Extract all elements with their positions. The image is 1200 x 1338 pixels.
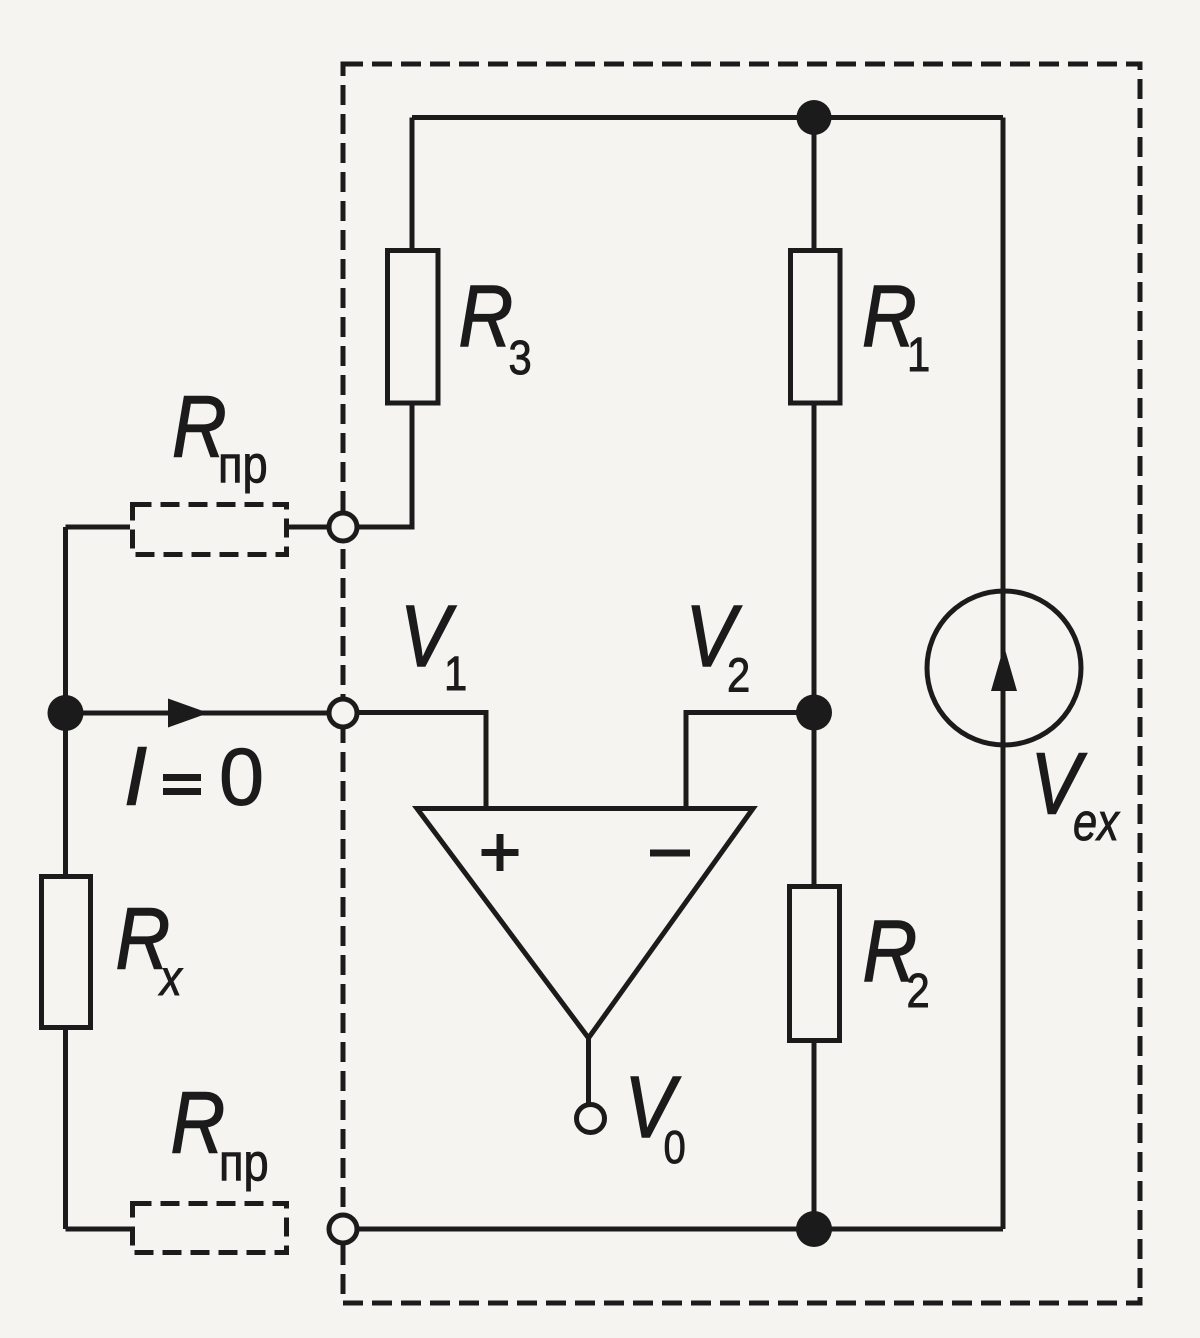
svg-text:R: R [459, 268, 514, 365]
current source Vex [927, 591, 1081, 745]
svg-text:x: x [158, 950, 183, 1005]
resistor R3 [388, 251, 439, 404]
wire V1 to op-amp plus input [343, 713, 486, 809]
terminal V0 output [577, 1105, 605, 1133]
op-amp minus input marking [650, 850, 690, 857]
wire I=0 sense lead [66, 711, 344, 716]
wire middle rail (R1/R2 branch) [812, 118, 817, 1230]
node V2 junction [796, 695, 832, 731]
dashed boundary box [343, 64, 1140, 1303]
wire left rail (Rx branch) [63, 527, 68, 1229]
resistor R2 [790, 887, 840, 1041]
resistor Rpr top (dashed) [133, 505, 287, 555]
wire top horizontal [412, 115, 1003, 120]
svg-text:пр: пр [219, 1134, 269, 1192]
svg-text:ex: ex [1073, 793, 1120, 852]
svg-text:I: I [124, 730, 147, 823]
svg-text:0: 0 [664, 1122, 686, 1173]
svg-text:2: 2 [727, 648, 750, 702]
svg-text:3: 3 [509, 330, 532, 384]
wire R3 branch [357, 118, 412, 528]
current source arrow [991, 646, 1017, 691]
terminal bottom-left [329, 1215, 357, 1243]
wire right rail (Vex branch) [1001, 118, 1006, 1230]
wire Rpr-top left lead [66, 525, 131, 530]
svg-text:0: 0 [219, 733, 264, 823]
wire Rpr-bottom left lead [66, 1227, 131, 1232]
arrow current direction [168, 699, 209, 728]
svg-text:R: R [171, 1075, 226, 1172]
node top junction [797, 100, 832, 135]
op-amp plus input marking [482, 834, 519, 871]
op-amp U1 [417, 809, 753, 1039]
wire op-amp output [586, 1038, 591, 1105]
svg-text:1: 1 [444, 646, 467, 700]
terminal middle-left [329, 699, 357, 727]
resistor Rpr bottom (dashed) [133, 1204, 287, 1253]
node left junction [48, 695, 84, 731]
terminal top-left [329, 513, 357, 541]
resistor R1 [791, 251, 841, 404]
svg-text:1: 1 [907, 327, 930, 381]
wire Rpr-top right lead [289, 525, 343, 530]
svg-text:2: 2 [907, 963, 930, 1017]
wire V2 to op-amp minus input [686, 713, 814, 809]
node bottom junction [796, 1211, 832, 1247]
wire bottom horizontal [343, 1227, 1003, 1232]
resistor Rx [42, 877, 91, 1028]
svg-text:пр: пр [218, 436, 268, 494]
